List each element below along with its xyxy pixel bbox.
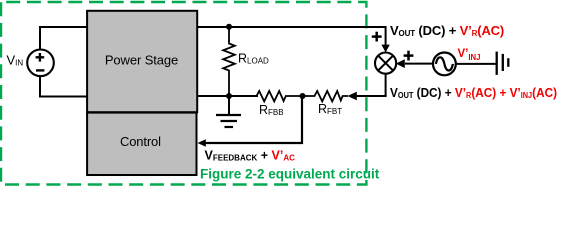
ac source V'_INJ (sine source) [433,53,456,76]
resistor R_FBT [303,91,349,101]
wire summing node bottom leg [385,74,387,97]
arrowhead left into summing node from injection source [396,59,405,68]
ground (rotated) at injection source return [497,52,509,75]
wire injection source to summing node [405,63,434,65]
equivalent-circuit boundary (green dashed box) [1,2,366,185]
plus sign at summing node right input [404,51,414,61]
summing node (circle with X mixer symbol) [375,53,396,74]
block Control [87,113,196,175]
arrowhead into Control [198,139,206,146]
junction V_OUT node top [226,24,232,30]
junction mid rail at R_LOAD bottom [226,93,232,99]
wire V_IN positive terminal to Power Stage input [40,27,88,50]
arrowhead down into summing node [381,45,389,53]
svg-text:Figure 2-2 equivalent circuit: Figure 2-2 equivalent circuit [200,166,380,181]
svg-text:VOUT (DC) + V’R(AC) + V’INJ(AC: VOUT (DC) + V’R(AC) + V’INJ(AC) [390,85,557,100]
plus sign at summing node top input [372,32,382,42]
block Power Stage [87,11,197,112]
node feedback junction between R_FBB and R_FBT [300,93,306,99]
arrowhead into R_FBT (signal direction) [347,92,356,100]
wire feedback node to Control input [205,96,302,143]
resistor R_LOAD [223,27,235,96]
wire V_IN negative terminal to Power Stage return [40,76,88,97]
svg-text:Power Stage: Power Stage [105,53,178,68]
voltage source V_IN [27,50,54,77]
ground [216,96,241,127]
wire top output rail from Power Stage to summing node [198,27,386,46]
wire summing node output to R_FBT [356,95,387,97]
wire injection source return to ground [455,63,496,65]
wire mid rail from Power Stage to R_FBB [198,95,259,97]
svg-text:Control: Control [120,134,161,149]
resistor R_FBB [257,91,303,101]
